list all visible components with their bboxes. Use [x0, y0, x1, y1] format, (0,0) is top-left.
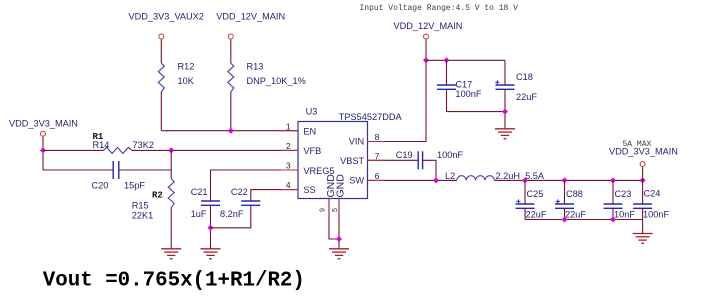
- svg-text:Vout =0.765x(1+R1/R2): Vout =0.765x(1+R1/R2): [43, 270, 305, 293]
- ground: [495, 129, 515, 139]
- junction: [228, 128, 234, 134]
- svg-text:6: 6: [375, 171, 380, 181]
- wire: [447, 111, 506, 113]
- junction: [444, 57, 450, 63]
- ground: [329, 249, 349, 259]
- junction: [40, 147, 46, 153]
- capacitor C88: [555, 180, 586, 219]
- ground: [633, 234, 653, 244]
- capacitor C17: [437, 80, 482, 99]
- svg-text:C23: C23: [615, 189, 632, 199]
- wire: [494, 179, 642, 181]
- wire: [42, 137, 44, 170]
- capacitor C21: [191, 187, 220, 219]
- pin 9 GND: [320, 174, 338, 212]
- svg-text:GND: GND: [335, 174, 347, 198]
- wire: [426, 59, 505, 61]
- capacitor C24: [633, 180, 669, 219]
- svg-text:U3: U3: [306, 106, 318, 116]
- pin 4 SS: [286, 180, 316, 195]
- svg-text:C20: C20: [92, 180, 109, 190]
- svg-text:VBST: VBST: [340, 156, 364, 166]
- wire: [423, 160, 436, 180]
- ground: [161, 249, 181, 259]
- pin stub GND 5: [338, 199, 340, 216]
- junction: [168, 147, 174, 153]
- wire: [160, 92, 162, 131]
- junction: [562, 177, 568, 183]
- pin stub GND 9: [328, 199, 330, 216]
- power terminal VDD_3V3_MAIN left: [9, 119, 78, 137]
- wire bottom rail: [525, 219, 643, 221]
- wire SW net: [368, 179, 457, 181]
- svg-text:R12: R12: [178, 62, 195, 72]
- svg-text:C19: C19: [396, 150, 413, 160]
- svg-text:R13: R13: [247, 62, 264, 72]
- power terminal VDD_12V_MAIN top: [394, 21, 463, 39]
- svg-text:15pF: 15pF: [124, 180, 145, 190]
- wire: [338, 199, 340, 249]
- power terminal VDD_3V3_VAUX2: [129, 12, 204, 40]
- wire VIN net: [368, 40, 427, 142]
- junction: [640, 177, 646, 183]
- svg-text:100nF: 100nF: [643, 210, 669, 220]
- pin 8 VIN: [349, 132, 380, 146]
- svg-text:4: 4: [286, 180, 291, 190]
- wire VREG5 net: [211, 170, 299, 201]
- svg-text:R14: R14: [93, 140, 110, 150]
- pin 1 EN: [286, 121, 316, 136]
- svg-text:Input Voltage Range:4.5 V to 1: Input Voltage Range:4.5 V to 18 V: [360, 4, 519, 13]
- wire: [230, 40, 232, 64]
- power terminal VDD_12V_MAIN: [216, 12, 285, 40]
- svg-text:2: 2: [286, 141, 291, 151]
- pin 7 VBST: [340, 151, 380, 166]
- junction: [610, 177, 616, 183]
- svg-text:100nF: 100nF: [455, 89, 481, 99]
- op-amp U3 body: [298, 106, 402, 198]
- pin stub SS: [281, 189, 298, 191]
- svg-text:1uF: 1uF: [191, 209, 207, 219]
- junction: [433, 177, 439, 183]
- svg-text:C18: C18: [516, 72, 533, 82]
- wire: [642, 220, 644, 234]
- junction: [610, 217, 616, 223]
- svg-text:VDD_12V_MAIN: VDD_12V_MAIN: [394, 21, 463, 31]
- svg-text:C88: C88: [566, 189, 583, 199]
- junction: [522, 177, 528, 183]
- svg-text:73K2: 73K2: [133, 140, 154, 150]
- wire GND pins: [329, 199, 339, 240]
- resistor R12: [158, 62, 194, 93]
- svg-text:EN: EN: [303, 126, 316, 136]
- pin 5 GND: [332, 174, 347, 212]
- pin 6 SW: [349, 171, 379, 186]
- svg-text:1: 1: [286, 121, 291, 131]
- svg-text:VDD_3V3_MAIN: VDD_3V3_MAIN: [9, 119, 78, 129]
- svg-text:5: 5: [332, 208, 339, 212]
- pin stub VIN: [368, 141, 385, 143]
- svg-text:VDD_3V3_MAIN: VDD_3V3_MAIN: [609, 147, 678, 157]
- wire: [210, 205, 212, 249]
- svg-text:SS: SS: [303, 185, 315, 195]
- svg-text:8.2nF: 8.2nF: [220, 209, 244, 219]
- capacitor C25: [516, 180, 547, 219]
- capacitor C23: [604, 180, 636, 219]
- svg-text:SW: SW: [349, 176, 364, 186]
- wire SS net: [251, 190, 298, 201]
- svg-text:C21: C21: [191, 187, 208, 197]
- wire: [211, 205, 251, 228]
- resistor R13: [228, 62, 306, 93]
- pin 3 VREG5: [286, 161, 335, 176]
- wire: [642, 167, 644, 180]
- wire: [504, 89, 506, 129]
- svg-text:22K1: 22K1: [132, 210, 153, 220]
- svg-text:DNP_10K_1%: DNP_10K_1%: [247, 76, 306, 86]
- ground: [201, 249, 221, 259]
- pin stub VFB: [281, 149, 298, 151]
- svg-text:10K: 10K: [178, 76, 195, 86]
- svg-text:VFB: VFB: [303, 146, 321, 156]
- wire: [446, 89, 448, 111]
- svg-text:VIN: VIN: [349, 136, 364, 146]
- svg-text:8: 8: [375, 132, 380, 142]
- power terminal VDD_3V3_MAIN right: [609, 147, 678, 167]
- svg-text:VDD_3V3_VAUX2: VDD_3V3_VAUX2: [129, 12, 204, 22]
- svg-text:22uF: 22uF: [526, 210, 547, 220]
- wire EN net: [161, 130, 298, 132]
- wire VBST net: [368, 159, 419, 161]
- capacitor C20: [92, 161, 146, 190]
- svg-text:3: 3: [286, 161, 291, 171]
- junction: [562, 217, 568, 223]
- pin stub EN: [281, 130, 298, 132]
- wire lower branch: [43, 169, 113, 171]
- junction: [502, 109, 508, 115]
- svg-text:VDD_12V_MAIN: VDD_12V_MAIN: [216, 12, 285, 22]
- wire: [119, 169, 171, 171]
- svg-text:22uF: 22uF: [565, 210, 586, 220]
- wire: [170, 150, 172, 178]
- pin stub VREG5: [281, 169, 298, 171]
- svg-text:2.2uH_5.5A: 2.2uH_5.5A: [496, 171, 545, 181]
- capacitor C22: [220, 187, 260, 219]
- wire: [446, 60, 448, 85]
- svg-text:10nF: 10nF: [614, 210, 635, 220]
- svg-text:R2: R2: [152, 191, 163, 201]
- svg-text:7: 7: [375, 151, 380, 161]
- wire: [132, 149, 298, 151]
- svg-text:100nF: 100nF: [437, 150, 463, 160]
- svg-text:TPS54527DDA: TPS54527DDA: [339, 112, 403, 122]
- junction: [423, 57, 429, 63]
- wire VFB net: [43, 149, 104, 151]
- resistor R15: [132, 179, 174, 221]
- svg-text:L2: L2: [445, 171, 455, 181]
- svg-text:C24: C24: [644, 188, 661, 198]
- pin 2 VFB: [286, 141, 321, 156]
- resistor R14: [93, 132, 154, 153]
- junction: [336, 236, 342, 242]
- capacitor C18: [495, 72, 537, 102]
- svg-text:C22: C22: [231, 187, 248, 197]
- capacitor C19: [396, 150, 464, 169]
- pin stub VBST: [368, 159, 385, 161]
- inductor L2: [445, 171, 545, 181]
- wire: [160, 40, 162, 64]
- wire: [230, 92, 232, 131]
- svg-text:9: 9: [320, 208, 327, 212]
- wire: [504, 60, 506, 85]
- wire: [170, 208, 172, 249]
- svg-text:22uF: 22uF: [516, 92, 537, 102]
- svg-text:R15: R15: [132, 200, 149, 210]
- pin stub SW: [368, 179, 385, 181]
- svg-text:C25: C25: [527, 189, 544, 199]
- junction: [208, 225, 214, 231]
